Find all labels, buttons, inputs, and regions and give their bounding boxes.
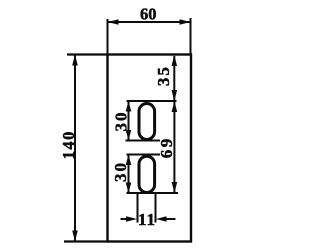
svg-text:35: 35 <box>154 65 173 86</box>
dimension line 35 <box>172 55 178 101</box>
dimension arrow 11 left <box>121 216 138 222</box>
svg-text:140: 140 <box>59 130 78 159</box>
svg-text:11: 11 <box>138 210 156 229</box>
label 30 slot1 <box>112 110 131 131</box>
extension line slot1 top <box>127 100 177 102</box>
dimension line 30 slot1 <box>126 101 132 141</box>
svg-text:30: 30 <box>112 110 131 131</box>
svg-text:69: 69 <box>157 136 176 158</box>
dimension line 69 <box>172 101 178 193</box>
label 11 <box>138 210 156 229</box>
dimension line 140 <box>72 55 78 242</box>
extension line slot2 top <box>127 154 161 156</box>
plate outline <box>108 55 192 242</box>
svg-text:30: 30 <box>111 161 130 182</box>
slot 1 <box>139 104 155 140</box>
extension line bottom edge left <box>64 240 108 242</box>
slot 2 <box>139 156 155 192</box>
label 140 <box>59 130 78 159</box>
label 69 <box>157 136 176 158</box>
svg-text:60: 60 <box>140 4 157 23</box>
dimension line 60 <box>108 19 191 25</box>
extension line top edge left <box>67 53 108 55</box>
extension line 11 left <box>137 193 139 223</box>
extension line 11 right <box>155 193 157 223</box>
extension line slot2 bottom <box>127 192 179 194</box>
label 35 <box>154 65 173 86</box>
extension line 60 right <box>190 18 192 55</box>
dimension line 30 slot2 <box>126 155 132 194</box>
extension line 60 left <box>107 19 109 55</box>
label 60 <box>140 4 157 23</box>
label 30 slot2 <box>111 161 130 182</box>
extension line slot1 bottom <box>126 140 161 142</box>
dimension arrow 11 right <box>156 216 176 222</box>
